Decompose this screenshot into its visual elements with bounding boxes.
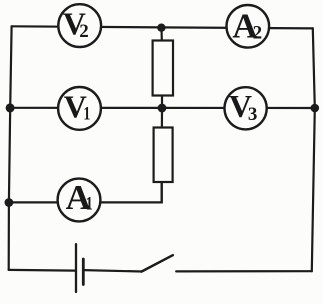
node: top junction dot <box>157 24 165 32</box>
ammeter A2 <box>227 5 270 48</box>
switch S1 arm <box>141 255 172 271</box>
wire: stub R1 to middle dot <box>161 95 163 108</box>
resistor R1 <box>153 41 173 96</box>
wire: bottom left (corner to battery) <box>9 269 75 272</box>
node: right middle junction dot <box>311 104 320 113</box>
resistor R2 <box>154 128 173 183</box>
wire: right vertical <box>312 28 315 271</box>
voltmeter V2 <box>58 4 101 47</box>
node: left middle junction dot <box>6 103 15 112</box>
svg-text:3: 3 <box>248 104 258 125</box>
wire: top horizontal (V2-A2 row) <box>12 26 313 28</box>
svg-text:1: 1 <box>83 103 90 124</box>
battery B1 short plate <box>82 259 85 285</box>
ammeter A1 <box>58 178 101 221</box>
wire: middle horizontal (V1-V3 row) <box>10 107 315 109</box>
svg-text:1: 1 <box>86 194 93 215</box>
battery B1 long plate <box>75 244 77 292</box>
wire: battery to switch pivot <box>84 270 142 271</box>
node: middle junction dot <box>158 104 167 113</box>
svg-text:2: 2 <box>79 21 89 42</box>
voltmeter V3 <box>225 87 267 129</box>
wire: bottom right (switch contact to right corner) <box>176 270 312 272</box>
svg-text:2: 2 <box>253 22 263 43</box>
voltmeter V1 <box>58 87 101 130</box>
wire: stub middle dot to R2 <box>161 108 163 128</box>
wire: left vertical <box>9 26 12 270</box>
wire: stub top dot to R1 <box>160 28 163 41</box>
wire: A1 row horizontal with riser to R2 <box>9 182 162 202</box>
wire: stub R2 to A1 row <box>161 182 163 202</box>
node: left A1-row junction dot <box>4 198 13 207</box>
